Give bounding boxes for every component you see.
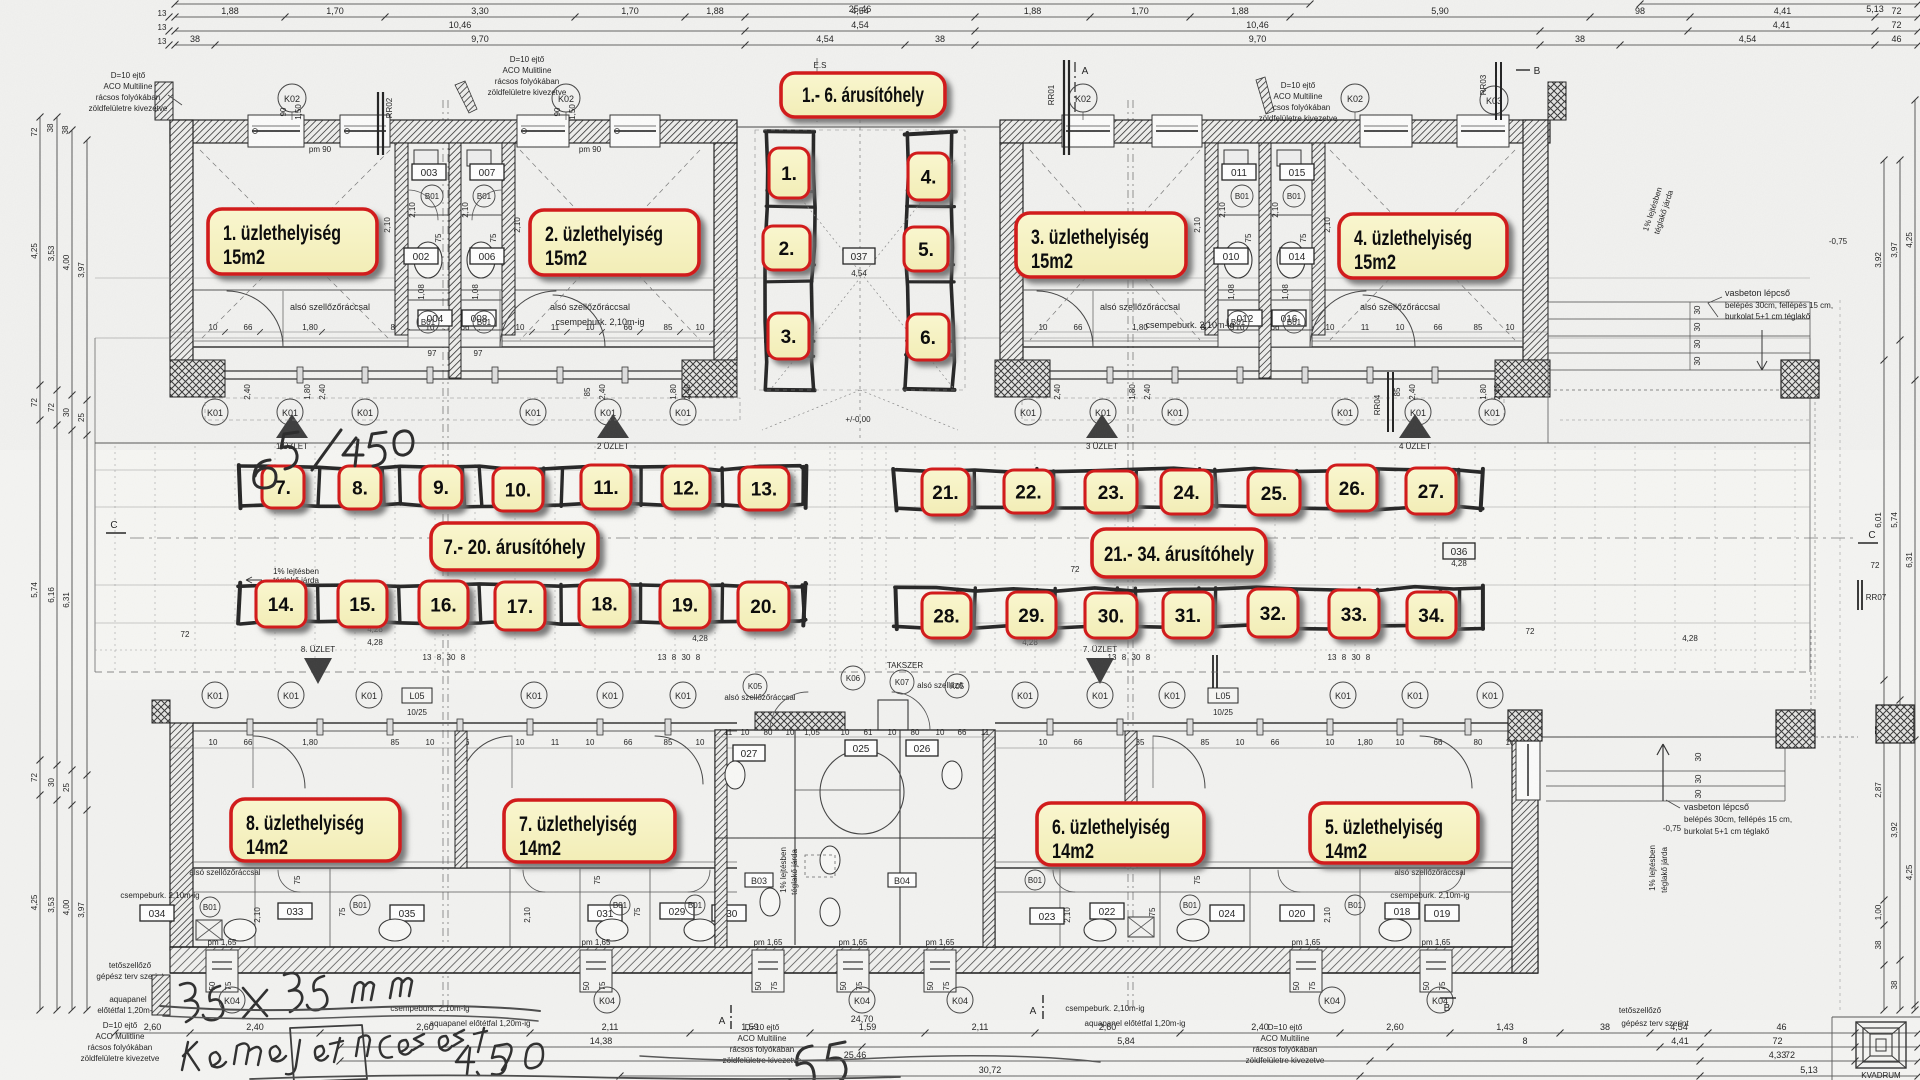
- stall tag 28: [922, 593, 971, 638]
- sketchy line bottom-center: [640, 1056, 1100, 1062]
- entry triangle 1 uzlet: [276, 414, 308, 438]
- svg-text:18.: 18.: [591, 595, 617, 616]
- stall tag 4: [908, 153, 949, 200]
- svg-text:15m2: 15m2: [1031, 250, 1073, 273]
- axis line x1130: [1127, 100, 1129, 1010]
- svg-text:31.: 31.: [1175, 606, 1201, 627]
- stall column left 1-3: [765, 132, 768, 390]
- dotted verticals middle band: [114, 446, 116, 670]
- svg-text:14m2: 14m2: [246, 836, 288, 859]
- svg-text:14m2: 14m2: [1052, 840, 1094, 863]
- svg-text:1.- 6. árusítóhely: 1.- 6. árusítóhely: [802, 84, 924, 107]
- sink squares bottom-left: [196, 920, 222, 940]
- K04 circles below bottom wall: [219, 987, 245, 1013]
- stall tag 20: [738, 582, 789, 630]
- room code boxes bottom-right: [1030, 908, 1064, 924]
- RR07 mark right edge: [1857, 580, 1859, 610]
- left wall top-right building: [1000, 143, 1023, 360]
- pier above top-right corner: [1548, 82, 1566, 120]
- svg-text:5. üzlethelyiség: 5. üzlethelyiség: [1325, 816, 1443, 839]
- svg-text:15m2: 15m2: [223, 246, 265, 269]
- handwriting 35x35 mm: [180, 973, 412, 1022]
- bottom exterior wall shopfront top-right: [995, 360, 1050, 397]
- stall tag 3: [768, 313, 809, 359]
- dimension chain top line 1: [175, 3, 1310, 5]
- stall tag 31: [1163, 592, 1213, 638]
- svg-text:3.: 3.: [781, 327, 797, 348]
- B section marker bottom: [1440, 997, 1456, 999]
- handwriting sketchy underlines bottom-left: [160, 1006, 540, 1011]
- svg-text:4.: 4.: [921, 168, 937, 189]
- label 4 uzlethelyiseg: [1339, 214, 1507, 278]
- stall tag 1: [769, 148, 809, 198]
- stall tag 7: [262, 466, 304, 508]
- wc fixtures top-left: [414, 242, 442, 278]
- dotted walkway verticals far right: [1814, 390, 1816, 700]
- corner pier cross bottom-right: [1508, 710, 1542, 741]
- dashed guides center top: [770, 160, 955, 390]
- dashed outline under top-right building: [1022, 398, 1504, 420]
- door arcs bottom-right building: [1153, 736, 1205, 788]
- room code box 026: [906, 740, 938, 756]
- right wall top-right building: [1523, 120, 1548, 360]
- bottom interior wall top-left building: [193, 346, 714, 348]
- door arcs bottom wall top-right building: [1037, 291, 1093, 347]
- stall tag 23: [1085, 471, 1137, 513]
- B01 circles top-right core: [1231, 185, 1253, 207]
- bottom exterior wall band full width: [170, 947, 1538, 973]
- svg-text:10.: 10.: [505, 481, 531, 502]
- label 7-20 arusitohely: [431, 523, 598, 570]
- wc fixtures bottom-left: [224, 919, 256, 941]
- svg-text:30.: 30.: [1098, 607, 1124, 628]
- section marker B top-right: [1516, 69, 1530, 71]
- dimension chain bottom line 3: [340, 1060, 1918, 1062]
- room code boxes 010-016: [1214, 248, 1248, 264]
- stall strip left top row: [239, 466, 805, 471]
- window top-right wing: [1152, 115, 1202, 147]
- svg-text:29.: 29.: [1018, 606, 1044, 627]
- room code box 027: [733, 745, 765, 761]
- door arcs bottom wall top-left building: [227, 291, 283, 347]
- stall tag 6: [907, 314, 949, 360]
- stall tag 30: [1085, 593, 1137, 638]
- stall tag 32: [1248, 589, 1298, 637]
- stall tag 33: [1329, 590, 1379, 638]
- room code boxes bottom-left: [140, 905, 174, 921]
- handwriting kemenyfa lecezes: [182, 1028, 487, 1074]
- dashed diagonals rooms 3-4: [1030, 150, 1200, 340]
- svg-text:25.: 25.: [1261, 484, 1287, 505]
- walkway lines under top buildings: [95, 337, 1810, 339]
- kvadrum logo frame: [1832, 1016, 1920, 1018]
- svg-text:13.: 13.: [751, 480, 777, 501]
- entry triangle 2 uzlet: [597, 414, 629, 438]
- svg-text:20.: 20.: [750, 597, 776, 618]
- B03 box: [745, 873, 773, 887]
- wc block outline bottom-middle: [715, 730, 995, 947]
- stairs top-right area: [1548, 301, 1810, 303]
- hatched leader top-center-left: [455, 81, 477, 113]
- left wall top-left building: [170, 120, 193, 360]
- A axis marker bottom-left of wc block: [730, 1005, 732, 1032]
- svg-text:3. üzlethelyiség: 3. üzlethelyiség: [1031, 226, 1149, 249]
- K02 circles above top-right building: [1069, 84, 1097, 112]
- door arcs top core left: [408, 190, 438, 220]
- entry triangle 4 uzlet: [1399, 414, 1431, 438]
- svg-text:6.: 6.: [920, 328, 936, 349]
- svg-text:21.- 34. árusítóhely: 21.- 34. árusítóhely: [1104, 543, 1254, 566]
- label 1 uzlethelyiseg: [208, 209, 377, 274]
- dim row inside bottom-left building: [170, 747, 737, 749]
- stall tag 11: [581, 465, 631, 509]
- stall tag 5: [904, 227, 948, 271]
- svg-text:5.: 5.: [918, 240, 934, 261]
- stall tag 14: [256, 581, 306, 627]
- svg-text:14m2: 14m2: [1325, 840, 1367, 863]
- B01 circles top-left core: [421, 185, 443, 207]
- stall strip right top row: [896, 468, 1481, 472]
- dashed diagonals room 1: [200, 150, 390, 340]
- wc fixtures bottom-right: [1084, 919, 1116, 941]
- svg-text:15m2: 15m2: [545, 247, 587, 270]
- interior vertical wall bottom-right: [1125, 731, 1137, 868]
- market top boundary line: [737, 126, 1000, 128]
- axis line x443: [442, 100, 444, 1010]
- stall tag 10: [493, 468, 543, 511]
- svg-text:15.: 15.: [349, 595, 375, 616]
- stall tag 8: [339, 466, 381, 509]
- core walls top-right wc block: [1205, 143, 1218, 335]
- C-C section line across middle band: [130, 537, 1858, 539]
- dimension chain left side: [39, 117, 41, 1010]
- stall tag 9: [420, 466, 462, 508]
- big accessible wc circle: [820, 750, 904, 834]
- stall tag 21: [922, 469, 969, 515]
- B04 box: [888, 873, 916, 887]
- wc door arcs bottom-left: [278, 870, 300, 892]
- 037 room code box: [843, 248, 875, 264]
- handwriting 65 bottom-center: [790, 1042, 846, 1080]
- window top-left wing: [340, 115, 390, 147]
- svg-text:7.: 7.: [275, 478, 291, 499]
- svg-text:24.: 24.: [1173, 483, 1199, 504]
- stairs bottom-right area: [1542, 736, 1776, 738]
- right end pier bottom: [1876, 705, 1914, 743]
- svg-text:32.: 32.: [1260, 604, 1286, 625]
- dashed surround center top: [755, 130, 965, 390]
- arrow down right walkway: [1757, 330, 1767, 370]
- svg-text:2. üzlethelyiség: 2. üzlethelyiség: [545, 223, 663, 246]
- svg-text:14.: 14.: [268, 595, 294, 616]
- interior divider line right wing: [1023, 289, 1523, 291]
- dim row inside bottom-right building: [995, 747, 1538, 749]
- B01 circles bottom-right: [1025, 870, 1045, 890]
- label 5 uzlethelyiseg: [1310, 803, 1478, 863]
- label 1-6 arusitohely: [781, 73, 945, 117]
- window top-left wing: [248, 115, 304, 147]
- top-left building top wall: [170, 120, 737, 143]
- svg-text:1. üzlethelyiség: 1. üzlethelyiség: [223, 222, 341, 245]
- label 3 uzlethelyiseg: [1016, 213, 1186, 277]
- stall tag 19: [660, 581, 710, 628]
- center corridor dotted verticals: [829, 446, 831, 670]
- label 21-34 arusitohely: [1092, 529, 1266, 577]
- stall tag 25: [1248, 471, 1300, 515]
- left pier bottom area: [152, 975, 170, 1015]
- label 7 uzlethelyiseg: [504, 800, 675, 862]
- bottom-right building right wall: [1512, 715, 1538, 973]
- dimension chain right side: [1883, 160, 1885, 1010]
- svg-text:22.: 22.: [1015, 483, 1041, 504]
- window top-right wing: [1062, 115, 1114, 147]
- section line A vertical: [1074, 62, 1076, 125]
- svg-text:19.: 19.: [672, 596, 698, 617]
- L05 box left: [402, 688, 432, 703]
- C section marker left: [106, 532, 126, 534]
- svg-text:9.: 9.: [433, 478, 449, 499]
- svg-text:8.: 8.: [352, 479, 368, 500]
- stall tag 27: [1406, 468, 1456, 514]
- entry triangle 3 uzlet: [1086, 414, 1118, 438]
- stall tag 12: [662, 466, 710, 509]
- dimension chain bottom line 4: [620, 1075, 1918, 1077]
- window in right wall bottom building: [1516, 740, 1540, 800]
- door arcs into wc block: [770, 692, 808, 730]
- window top-right wing: [1457, 115, 1509, 147]
- hatched post bottom-right: [1776, 710, 1815, 748]
- sketchy box around lecezes: [290, 1025, 367, 1080]
- window top-right wing: [1360, 115, 1412, 147]
- pier left of bottom-left building: [152, 700, 170, 723]
- bottom-left building left wall: [170, 723, 193, 950]
- stall tag 22: [1004, 470, 1053, 513]
- interior wall bottom-right building: [995, 867, 1512, 869]
- stall column right 4-6: [905, 133, 909, 390]
- axis line x860 center: [859, 120, 861, 440]
- RR03 vertical double: [1495, 62, 1497, 120]
- vent boxes along bottom wall: [206, 950, 238, 992]
- kvadrum logo square spiral: [1856, 1022, 1906, 1068]
- interior vertical wall bottom-left: [455, 731, 467, 868]
- dimension chain top line 4: [175, 44, 1918, 46]
- dashed rects middle block: [805, 855, 835, 877]
- handwriting 65/450 over tags: [254, 430, 413, 488]
- K01 circles below top-left building: [202, 399, 228, 425]
- window top-left wing: [517, 115, 569, 147]
- label 6 uzlethelyiseg: [1037, 803, 1204, 865]
- bottom interior wall top-right building: [1023, 346, 1523, 348]
- window top-left wing: [610, 115, 660, 147]
- core walls top-left wc block: [395, 143, 408, 335]
- interior wall bottom-left building: [193, 867, 737, 869]
- walkway dotted lines right: [1548, 389, 1815, 391]
- RR02 vertical double line: [377, 92, 379, 155]
- RR04 vertical double below: [1387, 372, 1389, 432]
- svg-text:28.: 28.: [933, 607, 959, 628]
- svg-text:4. üzlethelyiség: 4. üzlethelyiség: [1354, 227, 1472, 250]
- dim row inside top-right building: [1000, 331, 1548, 333]
- bottom-left building shopfront wall: [193, 722, 737, 724]
- stall tag 34: [1407, 592, 1456, 638]
- label 2 uzlethelyiseg: [530, 210, 699, 275]
- svg-text:12.: 12.: [673, 479, 699, 500]
- stall tag 2: [763, 226, 810, 270]
- walkway horizontals middle band: [95, 469, 1810, 471]
- dimension chain top line 3: [175, 30, 1918, 32]
- 036 room code box: [1443, 543, 1475, 559]
- right wall of top-left building: [714, 143, 737, 360]
- stall tag 29: [1007, 592, 1056, 638]
- svg-text:2.: 2.: [779, 239, 795, 260]
- stall strip left bottom row: [238, 584, 806, 587]
- wc partition row bottom-left: [193, 891, 737, 893]
- dashed outline under top-left building: [205, 398, 740, 420]
- svg-text:34.: 34.: [1418, 606, 1444, 627]
- svg-text:1.: 1.: [781, 164, 797, 185]
- handwriting 4,50 bottom: [456, 1044, 543, 1075]
- K01 circles below top-right building: [1015, 399, 1041, 425]
- wc fixtures middle block: [725, 761, 745, 789]
- svg-text:7.- 20. árusítóhely: 7.- 20. árusítóhely: [444, 536, 586, 559]
- pier above top-left corner: [155, 82, 173, 120]
- wc block inner walls: [794, 730, 796, 945]
- hatched post top-right: [1781, 360, 1819, 398]
- stall strip right bottom row: [895, 587, 1482, 592]
- hatched leader top-right: [1256, 77, 1274, 114]
- K01 circle row below middle band: [202, 682, 228, 708]
- C section marker right: [1858, 542, 1878, 544]
- dim row inside wc block: [715, 736, 995, 738]
- A section marker bottom: [1042, 995, 1044, 1022]
- stall tag 15: [338, 581, 387, 627]
- RR05 vertical double below: [1212, 655, 1214, 700]
- stall tag 24: [1161, 470, 1212, 514]
- top-right building top wall: [1000, 120, 1550, 143]
- sketchy pencil line bottom long: [250, 1075, 900, 1079]
- stall tag 16: [419, 581, 468, 628]
- svg-text:8. üzlethelyiség: 8. üzlethelyiség: [246, 812, 364, 835]
- B01 circles bottom-left: [200, 897, 220, 917]
- RR01 vertical double: [1063, 60, 1065, 155]
- svg-text:27.: 27.: [1418, 482, 1444, 503]
- K03 circle top-right: [1480, 86, 1508, 114]
- K02 circles above top-left building: [278, 84, 306, 112]
- up arrow stairs bottom-right: [1657, 744, 1669, 801]
- svg-text:26.: 26.: [1339, 479, 1365, 500]
- stall tag 17: [495, 582, 545, 630]
- dimension chain bottom line 2: [340, 1046, 1918, 1048]
- dim row inside top-left building: [170, 331, 737, 333]
- wc block top wall detail: [755, 712, 845, 730]
- stall tag 18: [579, 580, 630, 627]
- svg-text:23.: 23.: [1098, 483, 1124, 504]
- wc fixtures top-right: [1224, 242, 1252, 278]
- stall tag 13: [739, 467, 789, 510]
- dimension chain top line 2: [175, 16, 1918, 18]
- L05 box right: [1208, 688, 1238, 703]
- svg-text:33.: 33.: [1341, 605, 1367, 626]
- interior divider line: [193, 289, 714, 291]
- svg-text:21.: 21.: [932, 483, 958, 504]
- bottom-right building shopfront wall: [995, 722, 1512, 724]
- room code box 025: [845, 740, 877, 756]
- stall tag 26: [1327, 465, 1377, 511]
- svg-text:11.: 11.: [593, 478, 618, 499]
- dashed walkway bottom-right: [1785, 736, 1858, 738]
- wc partition row bottom-right: [995, 891, 1512, 893]
- svg-text:14m2: 14m2: [519, 837, 561, 860]
- svg-text:17.: 17.: [507, 597, 533, 618]
- K05 K06 K07 circles: [743, 674, 767, 698]
- svg-text:16.: 16.: [430, 596, 456, 617]
- bottom exterior wall shopfront top-left: [170, 360, 225, 397]
- sink square bottom-right: [1128, 917, 1154, 937]
- room code boxes 002-008: [404, 248, 438, 264]
- svg-text:15m2: 15m2: [1354, 251, 1396, 274]
- svg-text:7. üzlethelyiség: 7. üzlethelyiség: [519, 813, 637, 836]
- label 8 uzlethelyiseg: [231, 799, 400, 861]
- svg-text:6. üzlethelyiség: 6. üzlethelyiség: [1052, 816, 1170, 839]
- wc door arcs bottom-right: [1053, 870, 1075, 892]
- door arcs bottom-left building: [253, 736, 305, 788]
